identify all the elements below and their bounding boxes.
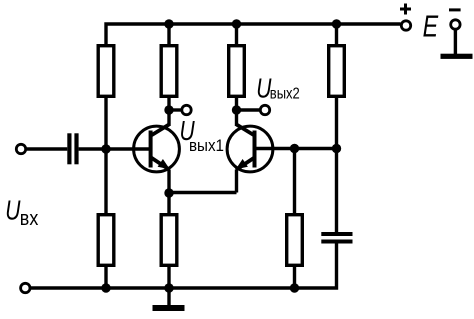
node bottom rail R7 xyxy=(290,283,299,292)
wire T1 emitter to R6 top xyxy=(167,170,170,214)
wire C2 bottom to bottom rail xyxy=(31,244,337,289)
node base wire R7 xyxy=(290,144,299,153)
resistor R3 xyxy=(229,46,245,97)
resistor R6 xyxy=(161,215,177,266)
transistor VT2 xyxy=(227,125,273,172)
node collector T2 xyxy=(232,105,241,114)
label U_vyh1 (output 1 voltage) xyxy=(180,116,195,147)
label U_vx (input voltage) xyxy=(5,196,20,227)
wire R1 bottom to R5 top (node input column) xyxy=(104,98,107,213)
svg-text:E: E xyxy=(423,8,439,43)
wire T2 base to column4 xyxy=(257,147,337,150)
resistor R7 xyxy=(287,215,303,266)
wire R4 bottom to capacitor C2 xyxy=(335,98,338,232)
terminal input xyxy=(16,144,25,153)
svg-text:вых2: вых2 xyxy=(270,85,300,102)
plus sign of supply E xyxy=(400,4,411,15)
wire E minus terminal to ground xyxy=(454,30,457,54)
svg-text:U: U xyxy=(5,196,20,227)
resistor R5 xyxy=(98,215,114,266)
wire ground stub xyxy=(167,288,170,305)
label U_vyh2 (output 2 voltage) xyxy=(256,74,271,105)
wire R7 bottom to bottom rail xyxy=(293,267,296,288)
wire to output terminal Uvyh1 xyxy=(169,108,181,111)
capacitor C1 xyxy=(67,133,78,164)
terminal output Uvyh1 xyxy=(182,105,191,114)
resistor R1 xyxy=(98,46,114,97)
node input junction xyxy=(101,144,110,153)
resistor R4 xyxy=(329,46,345,97)
node top rail c2 xyxy=(164,19,173,28)
terminal E minus xyxy=(451,20,460,29)
wire R5 bottom to bottom rail xyxy=(104,267,107,288)
svg-text:вых1: вых1 xyxy=(189,136,224,155)
wire T2 emitter down xyxy=(235,170,238,193)
terminal output Uvyh2 xyxy=(260,105,269,114)
node base wire c4 xyxy=(332,144,341,153)
svg-text:вх: вх xyxy=(20,208,39,230)
wire C1 to T1 base xyxy=(79,147,151,150)
node collector T1 xyxy=(164,105,173,114)
transistor VT1 xyxy=(134,125,180,172)
wire emitter link T1 to T2 xyxy=(169,191,237,194)
resistor R2 xyxy=(161,46,177,97)
terminal E plus xyxy=(401,21,410,30)
wire top rail xyxy=(106,24,401,44)
node emitter junction xyxy=(164,188,173,197)
label E (supply voltage) xyxy=(423,8,439,43)
capacitor C2 xyxy=(321,232,352,244)
ground (supply E minus) xyxy=(441,54,473,59)
node top rail c3 xyxy=(232,19,241,28)
wire R2 bottom to T1 collector xyxy=(167,98,170,126)
minus sign of supply E xyxy=(449,8,461,11)
node dots xyxy=(101,19,341,292)
node bottom rail c1 xyxy=(101,283,110,292)
node bottom rail c2 xyxy=(164,283,173,292)
wire input terminal to C1 xyxy=(27,147,68,150)
wire top rail to R4 top xyxy=(335,24,338,44)
ground (bottom rail) xyxy=(153,305,185,311)
terminal bottom left xyxy=(21,283,30,292)
wire top rail to R3 top xyxy=(235,24,238,44)
wire to output terminal Uvyh2 xyxy=(237,108,260,111)
wire R3 bottom to T2 collector xyxy=(235,98,238,126)
wire T2 base node down to R7 top xyxy=(293,149,296,214)
wire top rail to R2 top xyxy=(167,24,170,44)
node top rail c4 xyxy=(332,19,341,28)
wire R6 bottom to bottom rail xyxy=(167,267,170,288)
